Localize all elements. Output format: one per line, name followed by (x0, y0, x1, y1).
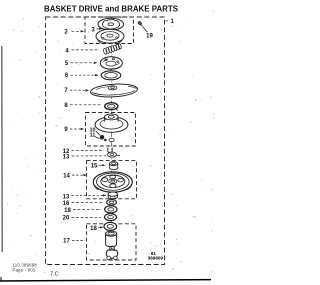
svg-text:13: 13 (63, 154, 70, 160)
part 3 lower disc (clutch drum) (96, 29, 124, 44)
svg-text:11: 11 (90, 133, 96, 139)
part 17 sleeve (106, 231, 117, 247)
callout 6 (65, 73, 99, 79)
callout 19 (143, 27, 154, 40)
part nut below drum (108, 192, 117, 199)
callout 13 (upper) (63, 154, 106, 160)
part bottom clip/bearing (106, 246, 118, 260)
callout 14 (63, 173, 87, 179)
callout 8 (64, 103, 102, 109)
callout 2 (64, 30, 84, 36)
callout 12 (63, 149, 104, 155)
centerline axis (110, 17, 112, 260)
part 7 water seal plate (90, 83, 138, 98)
part 12 clip (108, 148, 112, 153)
dashed box B (pulley 10/11) (86, 113, 136, 147)
callout 16 (63, 201, 102, 207)
part 3 upper disc (spin clutch lining) (98, 18, 124, 30)
setscrew 11 (100, 135, 107, 141)
callout 10 (90, 127, 101, 135)
svg-text:20: 20 (63, 216, 70, 222)
callout 7 (64, 88, 89, 94)
callout 3 (91, 28, 102, 34)
svg-text:Page - 001: Page - 001 (13, 267, 36, 272)
callout 13 (lower) (63, 194, 107, 200)
callout 17 (63, 239, 85, 245)
callout 4 (65, 48, 98, 54)
screw 19 (138, 21, 143, 26)
part 15 bearing cylinder (109, 162, 117, 170)
part 9 spin pulley (95, 114, 128, 132)
part 4 spring (103, 43, 122, 54)
callout 11 (90, 133, 100, 139)
svg-text:13: 13 (63, 195, 70, 201)
svg-text:369609: 369609 (148, 256, 164, 261)
svg-text:14: 14 (63, 173, 70, 179)
callout 9 (64, 127, 84, 133)
svg-text:19: 19 (146, 33, 153, 39)
part 14 brake drum (93, 172, 132, 192)
photocopy speckle noise (7, 8, 215, 273)
callout 15 (91, 164, 106, 170)
svg-text:17: 17 (63, 239, 70, 245)
small nut below pulley (109, 138, 114, 141)
svg-text:BASKET DRIVE and BRAKE PARTS: BASKET DRIVE and BRAKE PARTS (44, 3, 178, 13)
part 16 washer (107, 200, 117, 205)
part 8 snap ring (105, 101, 118, 111)
svg-text:15: 15 (91, 164, 98, 170)
scan edge artifact line left (1, 46, 3, 252)
dashed box C (brake 15) (87, 161, 137, 199)
svg-text:7.C: 7.C (50, 272, 59, 278)
callout 18 (in box) (90, 226, 103, 232)
svg-text:18: 18 (90, 226, 97, 232)
part 5 bearing housing (100, 57, 122, 69)
part 20 ring (105, 214, 117, 221)
part 6 ring (101, 69, 121, 80)
svg-text:18: 18 (64, 208, 71, 214)
dashed box A (parts 2/3) (85, 17, 134, 44)
part 13 washer w/ tail (108, 152, 120, 157)
bottom rule (0, 280, 211, 281)
part 18b ring (104, 222, 117, 230)
callout 20 (63, 216, 101, 222)
outer dashed frame (46, 17, 165, 265)
part 18 ring (105, 206, 117, 213)
callout 18 (upper) (64, 208, 101, 214)
dashed box D (17/18) (87, 224, 137, 260)
svg-text:16: 16 (63, 201, 70, 207)
callout 1 (166, 19, 175, 25)
callout 5 (65, 61, 98, 67)
